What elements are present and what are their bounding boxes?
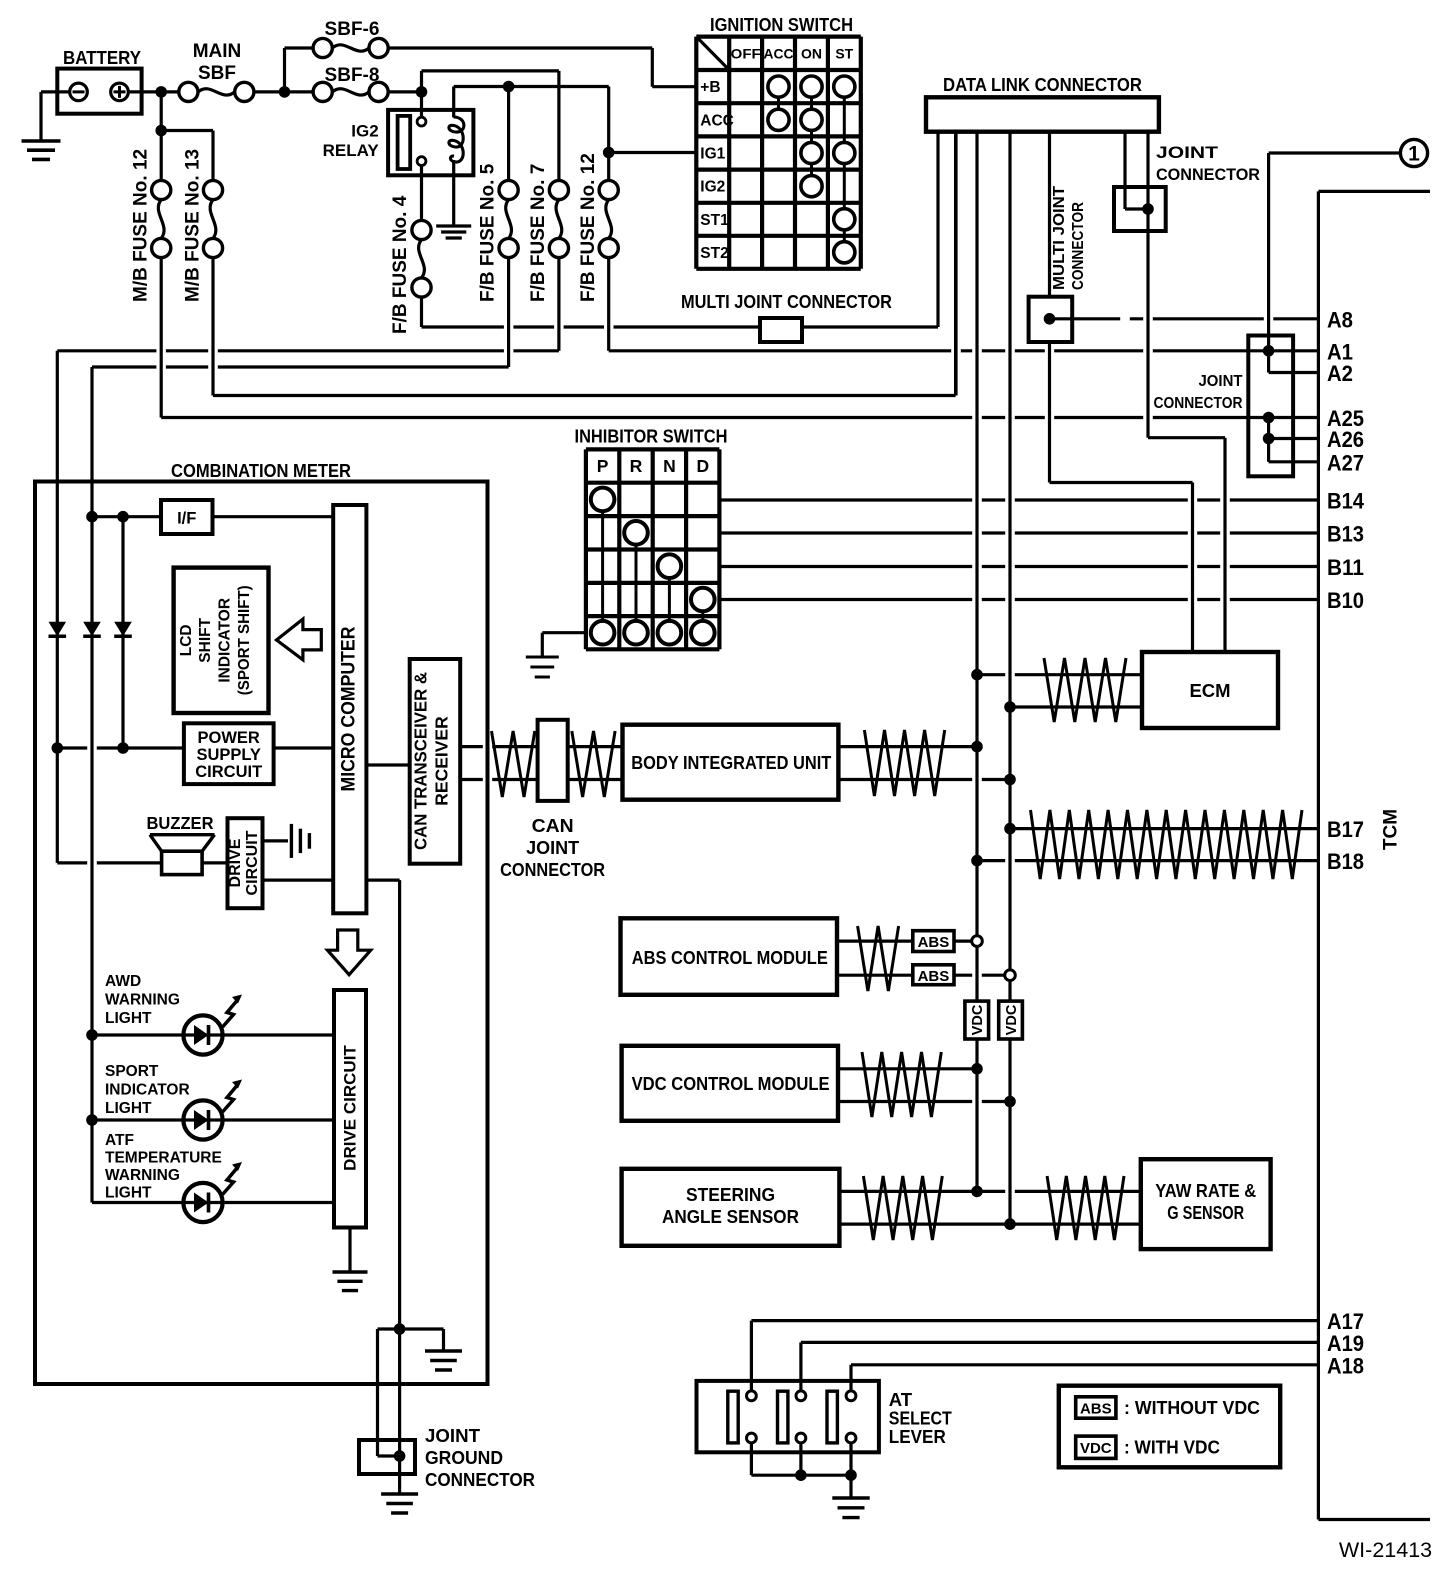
svg-text:B18: B18 [1327, 849, 1364, 874]
arrow to LCD [277, 619, 322, 660]
wire inhibitor ground [542, 631, 586, 634]
wire DLC pin3 bus1 upper [975, 132, 978, 936]
multi joint connector left [760, 318, 802, 342]
wire relay coil top [452, 87, 455, 118]
svg-text:A26: A26 [1327, 427, 1364, 452]
svg-text:CONNECTOR: CONNECTOR [1154, 395, 1243, 412]
svg-text:(SPORT SHIFT): (SPORT SHIFT) [236, 585, 253, 695]
wire off-page 1 drop [1267, 153, 1270, 373]
node multi joint mid [1044, 313, 1056, 325]
fuse M/B No.13 [203, 180, 222, 199]
svg-text:B11: B11 [1327, 555, 1364, 580]
svg-text:B13: B13 [1327, 522, 1364, 547]
wire I/F row [92, 515, 161, 518]
wire SBF-6 to ignition +B [388, 46, 652, 49]
svg-text:DATA LINK CONNECTOR: DATA LINK CONNECTOR [943, 74, 1142, 95]
ground inhibitor switch [526, 656, 559, 659]
wire LED1 [92, 1033, 183, 1036]
wire A26 [1269, 437, 1319, 440]
wire relay coil to ground [452, 160, 455, 226]
CAN transceiver box [410, 659, 461, 864]
ground drive circuit 1 [290, 824, 293, 858]
svg-text:COMBINATION METER: COMBINATION METER [171, 460, 351, 481]
wire ABS 1 [837, 939, 913, 942]
svg-text:VDC: VDC [970, 1004, 986, 1035]
wire A19 [801, 1341, 1319, 1344]
svg-text:MICRO COMPUTER: MICRO COMPUTER [338, 627, 360, 792]
wire micro to CAN transceiver [366, 763, 409, 766]
ignition switch [694, 37, 698, 269]
wire LED2 [92, 1118, 183, 1121]
diode c [114, 622, 132, 637]
wire I/F drop [90, 367, 93, 517]
svg-text:F/B FUSE No. 5: F/B FUSE No. 5 [478, 163, 499, 302]
svg-text:A27: A27 [1327, 450, 1364, 475]
twisted pair ABS [858, 926, 899, 991]
svg-text:ABS CONTROL MODULE: ABS CONTROL MODULE [632, 947, 828, 968]
wire M/B No.13 to DLC [211, 258, 214, 396]
svg-text:I/F: I/F [177, 510, 196, 528]
svg-text:INDICATOR: INDICATOR [105, 1082, 190, 1099]
wire IG1 feed [609, 151, 697, 154]
svg-text:N: N [663, 456, 676, 476]
wire B14 row [719, 498, 1318, 501]
down arrow [328, 930, 371, 975]
svg-text:B14: B14 [1327, 489, 1364, 514]
wire B17 [1010, 827, 1318, 830]
fuse SBF-8 [313, 82, 332, 101]
wire joint connector lower run [1267, 418, 1270, 462]
node B17 bus [1004, 823, 1016, 835]
svg-text:CAN: CAN [532, 816, 574, 836]
twisted pair steering b [1047, 1176, 1124, 1240]
node VDC bus2 [1004, 1096, 1016, 1108]
IG2 relay [388, 110, 473, 175]
wire fuse No.4 to multi joint [420, 297, 423, 327]
inhibitor switch [584, 449, 588, 649]
svg-text:SBF: SBF [198, 63, 236, 84]
node joint connector top [1142, 203, 1154, 215]
wire BIU out L [838, 778, 1010, 781]
svg-text:RECEIVER: RECEIVER [432, 716, 452, 806]
wire drive1 to micro computer [263, 878, 334, 881]
svg-text:A18: A18 [1327, 1353, 1364, 1378]
wire A2 [1269, 371, 1319, 374]
svg-text:DRIVE: DRIVE [227, 838, 244, 887]
node BIU L bus [1004, 774, 1016, 786]
wire junction riser SBF-6 [283, 48, 286, 92]
svg-text:TCM: TCM [1381, 809, 1402, 850]
fuse F/B No.12 [599, 180, 618, 199]
svg-text:ABS: ABS [918, 934, 950, 951]
wire fuse No.5 riser [507, 87, 510, 181]
svg-text:A19: A19 [1327, 1331, 1364, 1356]
node A26 [1263, 433, 1275, 445]
node battery feed [155, 86, 167, 98]
wire ABS 2 [837, 974, 913, 977]
svg-text:ST2: ST2 [700, 245, 728, 262]
node IG1 tap [603, 147, 615, 159]
wire meter ground run [378, 1327, 444, 1330]
ABS tag 1 [913, 931, 954, 952]
node A25 [1263, 412, 1275, 424]
wire lever pin2 down [799, 1443, 802, 1475]
node M/B branch [155, 125, 167, 137]
svg-text:VDC: VDC [1004, 1004, 1020, 1035]
AT select lever box [697, 1381, 879, 1452]
svg-text:IGNITION SWITCH: IGNITION SWITCH [710, 14, 853, 35]
svg-text:MAIN: MAIN [193, 41, 242, 62]
svg-text:B10: B10 [1327, 588, 1364, 613]
svg-text:IG1: IG1 [700, 146, 725, 163]
svg-text:VDC: VDC [1080, 1440, 1112, 1457]
svg-text:D: D [696, 456, 709, 476]
wire to ECM pin2 [1148, 436, 1225, 439]
joint connector top [1114, 187, 1166, 231]
svg-text:SPORT: SPORT [105, 1063, 159, 1080]
svg-text:ON: ON [801, 45, 822, 61]
I/F box [161, 500, 213, 534]
svg-text:IG2: IG2 [700, 179, 725, 196]
legend ABS tag [1076, 1397, 1116, 1418]
svg-text:: WITH VDC: : WITH VDC [1124, 1437, 1220, 1458]
node meter ground [394, 1323, 406, 1335]
svg-text:M/B FUSE No. 12: M/B FUSE No. 12 [131, 149, 152, 302]
svg-text:DRIVE CIRCUIT: DRIVE CIRCUIT [341, 1045, 360, 1171]
svg-text:1: 1 [1408, 143, 1420, 166]
node ECM L bus [1004, 701, 1016, 713]
wire bus1 to VDC tag [975, 946, 978, 1001]
wire to M/B fuse No.13 [161, 129, 213, 132]
svg-text:OFF: OFF [731, 45, 761, 61]
drive circuit 2 box [334, 990, 366, 1228]
power supply circuit box [184, 723, 274, 784]
twisted pair CAN b [572, 731, 615, 797]
twisted pair TCM CAN [1031, 810, 1303, 879]
svg-text:IG2: IG2 [351, 122, 378, 141]
wire relay contact feed [420, 92, 423, 117]
fuse M/B No.12 [152, 180, 171, 199]
wire DLC pin7 through joint connector [1146, 132, 1149, 438]
svg-text:SBF-8: SBF-8 [325, 65, 380, 86]
node LED2 tap [86, 1114, 98, 1126]
wire steering 1 [839, 1190, 1140, 1193]
wire CAN H right [568, 745, 623, 748]
combination meter box [35, 482, 488, 1385]
drive circuit 1 box [228, 818, 263, 908]
svg-text:B17: B17 [1327, 817, 1364, 842]
body integrated unit [623, 725, 839, 800]
svg-text:ANGLE SENSOR: ANGLE SENSOR [662, 1206, 799, 1227]
node A1 [1263, 345, 1275, 357]
svg-text:CONNECTOR: CONNECTOR [1156, 165, 1260, 184]
VDC tag 1 [965, 1001, 989, 1039]
node LED1 tap [86, 1029, 98, 1041]
node VDC bus1 [971, 1063, 983, 1075]
LED AWD [183, 1015, 222, 1054]
svg-text:LCD: LCD [178, 624, 195, 656]
ground battery [22, 139, 61, 143]
svg-text:POWER: POWER [198, 729, 260, 747]
svg-text:CONNECTOR: CONNECTOR [500, 860, 605, 880]
svg-text:JOINT: JOINT [1199, 373, 1244, 390]
node I/F b [117, 511, 129, 523]
wire to SBF-6 [285, 46, 314, 49]
svg-text:+B: +B [700, 79, 720, 96]
svg-text:ST: ST [835, 45, 853, 61]
diode b [83, 622, 101, 637]
node steering bus2 [1004, 1218, 1016, 1230]
svg-text:M/B FUSE No. 13: M/B FUSE No. 13 [183, 149, 204, 302]
data link connector [926, 97, 1159, 131]
node joint ground [394, 1450, 406, 1462]
svg-text:WARNING: WARNING [105, 992, 180, 1009]
svg-text:SUPPLY: SUPPLY [196, 746, 261, 764]
svg-text:ACC: ACC [764, 45, 794, 61]
fuse F/B No.7 [549, 180, 568, 199]
connector ABS bus2 [1005, 970, 1016, 981]
multi joint connector mid [1029, 297, 1073, 342]
svg-text:JOINT: JOINT [425, 1425, 481, 1446]
VDC tag 2 [999, 1001, 1023, 1039]
node I/F a [86, 511, 98, 523]
VDC control module [622, 1046, 838, 1121]
node psu c [117, 742, 129, 754]
wire buzzer feed [56, 748, 59, 863]
LCD shift indicator box [174, 568, 269, 713]
node BIU H bus [971, 741, 983, 753]
fuse SBF-6 [313, 38, 332, 57]
twisted pair BIU [864, 730, 944, 796]
wire fuse No.12 to A1 [607, 258, 610, 351]
wire B11 row [719, 565, 1318, 568]
battery [57, 69, 141, 114]
svg-text:JOINT: JOINT [1156, 143, 1219, 162]
wire B18 [977, 859, 1318, 862]
svg-text:LIGHT: LIGHT [105, 1185, 152, 1202]
svg-text:R: R [630, 456, 643, 476]
micro computer box [333, 505, 366, 913]
wire battery negative [41, 90, 70, 93]
fuse F/B No.4 [412, 220, 431, 239]
svg-text:SHIFT: SHIFT [197, 617, 214, 662]
wire SBF-8 out [388, 90, 421, 93]
legend box [1059, 1386, 1280, 1468]
svg-text:G SENSOR: G SENSOR [1167, 1202, 1244, 1223]
wire lever pin1 down [750, 1443, 753, 1475]
ground combination meter [425, 1349, 462, 1352]
node lever gnd a [795, 1469, 807, 1481]
svg-text:A8: A8 [1327, 307, 1353, 332]
svg-text:ATF: ATF [105, 1132, 134, 1149]
svg-text:ECM: ECM [1189, 680, 1230, 701]
ABS tag 2 [913, 965, 954, 985]
wire fuse No.12 riser [607, 87, 610, 181]
wire A18 [851, 1363, 1318, 1366]
svg-text:INDICATOR: INDICATOR [217, 598, 234, 683]
wire DLC pin6 [1123, 132, 1126, 209]
LED ATF [183, 1183, 222, 1222]
wire relay contact to fuse No.4 [420, 166, 423, 221]
wire VDC 1 [838, 1067, 977, 1070]
wire LED feed column [90, 517, 93, 1203]
node ECM H bus [971, 669, 983, 681]
twisted pair CAN a [492, 731, 535, 797]
wire coil bus [454, 85, 609, 88]
twisted pair ECM [1044, 658, 1126, 722]
wire multi joint to ECM feed [1048, 342, 1051, 483]
wire DLC pin2 to M/B fuse line [954, 132, 957, 396]
svg-text:F/B FUSE No. 4: F/B FUSE No. 4 [390, 195, 411, 334]
wire psu to micro computer [274, 746, 334, 749]
wire joint ground internal [378, 1454, 400, 1457]
wire I/F to micro computer [213, 515, 334, 518]
joint ground connector [359, 1440, 415, 1474]
wire bus1 lower [975, 1039, 978, 1191]
svg-text:F/B FUSE No. 7: F/B FUSE No. 7 [528, 164, 549, 302]
wire micro computer down [366, 878, 399, 881]
wire BIU out H [838, 745, 977, 748]
svg-text:CAN TRANSCEIVER &: CAN TRANSCEIVER & [411, 672, 431, 850]
svg-text:P: P [597, 456, 609, 476]
main SBF fuse [179, 82, 198, 101]
wire A27 [1269, 460, 1319, 463]
svg-text:RELAY: RELAY [323, 141, 380, 160]
svg-text:LIGHT: LIGHT [105, 1100, 152, 1117]
svg-text:TEMPERATURE: TEMPERATURE [105, 1150, 222, 1167]
svg-text:WI-21413: WI-21413 [1339, 1538, 1432, 1562]
TCM boundary [1318, 190, 1430, 193]
off-page connector 1 [1269, 151, 1401, 154]
wire meter to joint ground 2 [398, 1329, 401, 1494]
wire drive1 ground [263, 839, 289, 842]
ground AT select lever [832, 1496, 869, 1499]
wire power supply row [57, 746, 184, 749]
svg-text:CIRCUIT: CIRCUIT [195, 763, 262, 781]
svg-text:ABS: ABS [918, 968, 950, 985]
fuse F/B No.5 [499, 180, 518, 199]
connector ABS bus1 [972, 936, 983, 947]
svg-text:A2: A2 [1327, 361, 1353, 386]
wire multi joint left to DLC [802, 325, 938, 328]
node psu a [52, 742, 64, 754]
twisted pair steering a [863, 1176, 942, 1240]
yaw rate sensor [1141, 1159, 1271, 1249]
wire main SBF to junction [254, 90, 313, 93]
wire diode column c [121, 517, 124, 748]
wire A1 stub [1269, 349, 1319, 352]
node SBF-8 out [416, 86, 428, 98]
svg-text:BATTERY: BATTERY [63, 48, 141, 68]
svg-text:ABS: ABS [1080, 1401, 1112, 1418]
wire meter power drop [56, 351, 59, 748]
svg-text:ACC: ACC [700, 112, 734, 129]
svg-text:F/B FUSE No. 12: F/B FUSE No. 12 [578, 153, 599, 302]
wire bus2 to VDC tag [1008, 981, 1011, 1002]
wire ABS tag2 to bus [954, 974, 1005, 977]
svg-text:AWD: AWD [105, 973, 141, 990]
svg-text:GROUND: GROUND [425, 1447, 503, 1468]
wire ECM L [1010, 705, 1142, 708]
diode a [49, 622, 67, 637]
wire riser to fuse No.7 feed [420, 71, 423, 92]
wire drive2 ground [348, 1228, 351, 1273]
wire M/B fuse feed [160, 92, 163, 180]
wire B13 row [719, 531, 1318, 534]
node B18 bus [971, 855, 983, 867]
twisted pair VDC [862, 1052, 941, 1117]
svg-text:INHIBITOR SWITCH: INHIBITOR SWITCH [575, 426, 728, 447]
steering angle sensor [622, 1169, 840, 1246]
svg-text:CIRCUIT: CIRCUIT [244, 830, 261, 895]
joint connector right [1248, 336, 1293, 477]
node lever gnd b [845, 1469, 857, 1481]
wire A17 [751, 1319, 1318, 1322]
ground drive circuit 2 [333, 1270, 368, 1273]
node fuse No.5 feed [503, 81, 515, 93]
svg-text:BUZZER: BUZZER [147, 813, 214, 833]
wire steering 2 [839, 1222, 1140, 1225]
svg-text:: WITHOUT VDC: : WITHOUT VDC [1124, 1397, 1260, 1418]
wire A25 stub [1269, 416, 1319, 419]
svg-text:VDC CONTROL MODULE: VDC CONTROL MODULE [632, 1073, 830, 1094]
svg-text:BODY INTEGRATED UNIT: BODY INTEGRATED UNIT [631, 752, 832, 773]
LED sport [183, 1100, 222, 1139]
wire CAN L left [460, 778, 537, 781]
wire DLC pin5 to multi joint connector [1048, 132, 1051, 297]
ECM box [1142, 652, 1278, 728]
svg-text:SBF-6: SBF-6 [325, 19, 380, 40]
ground IG2 relay [436, 224, 471, 227]
svg-text:MULTI JOINT CONNECTOR: MULTI JOINT CONNECTOR [681, 291, 892, 312]
legend VDC tag [1076, 1436, 1116, 1458]
wire fuse No.7 to power supply line [557, 258, 560, 351]
AT select lever switches [728, 1391, 738, 1443]
wire LED3 [92, 1201, 183, 1204]
ground joint ground connector [381, 1492, 418, 1495]
wire A8 [1050, 317, 1319, 320]
svg-text:MULTI JOINT: MULTI JOINT [1051, 185, 1068, 290]
svg-text:LIGHT: LIGHT [105, 1010, 152, 1027]
wire meter to joint ground 1 [376, 1329, 379, 1456]
svg-text:JOINT: JOINT [526, 838, 579, 858]
node SBF split [279, 86, 291, 98]
svg-text:CONNECTOR: CONNECTOR [1070, 202, 1087, 290]
svg-text:ST1: ST1 [700, 212, 729, 229]
wire DLC pin1 to multi joint [936, 132, 939, 327]
wire ECM H [977, 673, 1142, 676]
svg-text:CONNECTOR: CONNECTOR [425, 1469, 535, 1490]
wire CAN H left [460, 745, 537, 748]
node steering bus1 [971, 1186, 983, 1198]
wire VDC 2 [838, 1100, 1010, 1103]
svg-text:LEVER: LEVER [889, 1426, 946, 1447]
wire CAN L right [568, 778, 623, 781]
CAN joint connector [538, 720, 568, 801]
svg-text:WARNING: WARNING [105, 1167, 180, 1184]
wire lever pin3 down [849, 1443, 852, 1498]
wire buzzer to drive circuit [202, 861, 227, 864]
wire fuse No.5 to I/F line [507, 258, 510, 367]
wire ABS tag1 to bus [954, 939, 972, 942]
wire B10 row [719, 598, 1318, 601]
wire M/B No.12 to A25 [160, 258, 163, 418]
wire DLC pin4 bus2 upper [1008, 132, 1011, 970]
ABS control module [621, 918, 838, 995]
svg-text:STEERING: STEERING [686, 1184, 775, 1205]
wire bus2 lower [1008, 1039, 1011, 1224]
wire battery positive [128, 90, 179, 93]
